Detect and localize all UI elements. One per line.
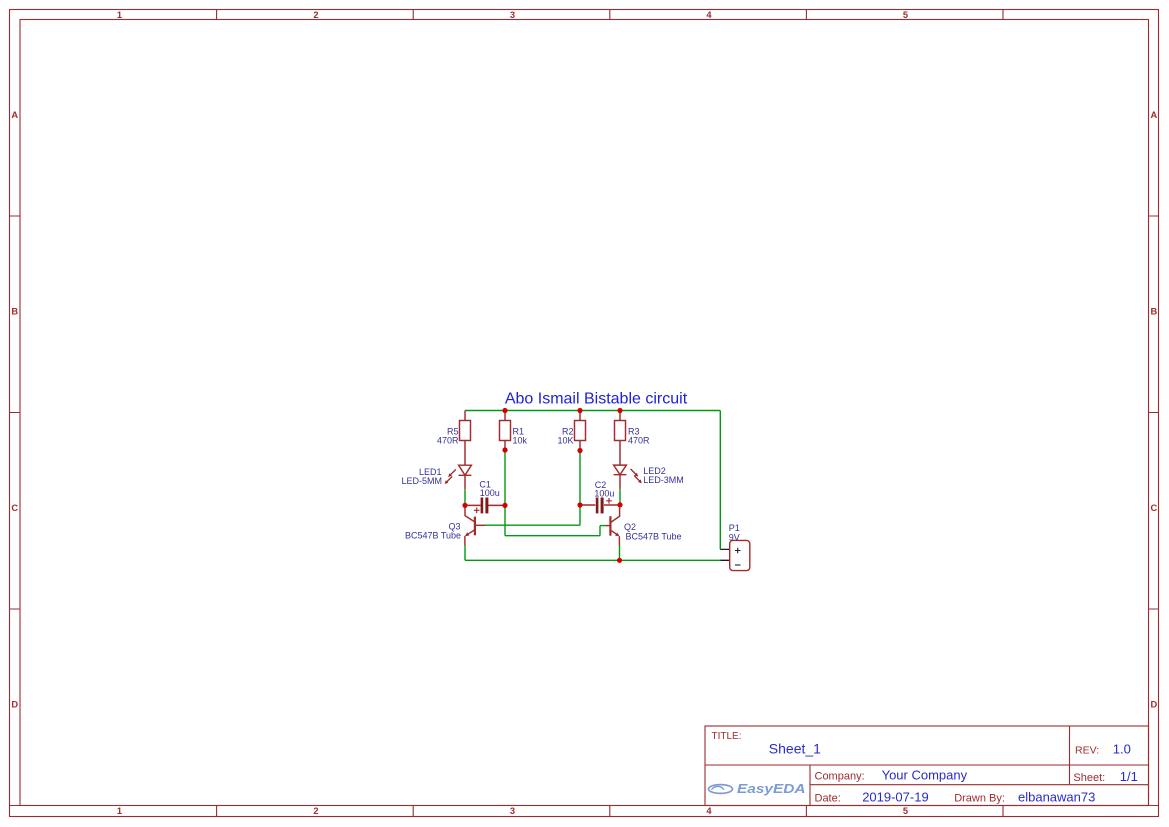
svg-text:A: A: [1150, 110, 1157, 120]
svg-text:EasyEDA: EasyEDA: [737, 782, 806, 796]
svg-text:D: D: [11, 699, 18, 709]
svg-text:1/1: 1/1: [1120, 769, 1138, 784]
svg-text:C: C: [11, 503, 18, 513]
svg-text:Your Company: Your Company: [882, 767, 968, 782]
svg-text:BC547B Tube: BC547B Tube: [405, 531, 461, 541]
svg-text:3: 3: [510, 10, 515, 20]
svg-text:1.0: 1.0: [1113, 741, 1131, 756]
svg-text:LED-3MM: LED-3MM: [643, 475, 684, 485]
svg-text:Sheet:: Sheet:: [1073, 772, 1105, 784]
svg-text:10K: 10K: [557, 435, 573, 445]
svg-text:Company:: Company:: [815, 770, 865, 782]
svg-text:2: 2: [313, 806, 318, 816]
svg-text:2: 2: [313, 10, 318, 20]
svg-text:5: 5: [903, 806, 908, 816]
svg-text:elbanawan73: elbanawan73: [1018, 790, 1095, 805]
svg-text:3: 3: [510, 806, 515, 816]
svg-text:9V: 9V: [729, 532, 740, 542]
svg-text:10k: 10k: [513, 435, 528, 445]
svg-text:D: D: [1150, 699, 1157, 709]
svg-text:Date:: Date:: [815, 793, 841, 805]
svg-text:TITLE:: TITLE:: [712, 731, 742, 742]
svg-text:470R: 470R: [437, 435, 459, 445]
svg-text:B: B: [11, 306, 18, 316]
svg-text:1: 1: [117, 10, 122, 20]
svg-text:2019-07-19: 2019-07-19: [862, 790, 929, 805]
svg-text:A: A: [11, 110, 18, 120]
svg-text:1: 1: [117, 806, 122, 816]
svg-text:LED-5MM: LED-5MM: [401, 476, 442, 486]
svg-text:5: 5: [903, 10, 908, 20]
svg-text:C: C: [1150, 503, 1157, 513]
svg-text:4: 4: [706, 806, 712, 816]
svg-text:Drawn By:: Drawn By:: [954, 793, 1005, 805]
svg-text:Abo Ismail Bistable circuit: Abo Ismail Bistable circuit: [505, 391, 688, 408]
svg-text:BC547B Tube: BC547B Tube: [626, 532, 682, 542]
svg-text:100u: 100u: [594, 488, 614, 498]
svg-text:REV:: REV:: [1075, 744, 1099, 756]
svg-text:4: 4: [706, 10, 712, 20]
svg-text:Sheet_1: Sheet_1: [769, 741, 821, 757]
svg-text:470R: 470R: [628, 435, 650, 445]
svg-text:B: B: [1150, 306, 1157, 316]
svg-text:100u: 100u: [480, 488, 500, 498]
